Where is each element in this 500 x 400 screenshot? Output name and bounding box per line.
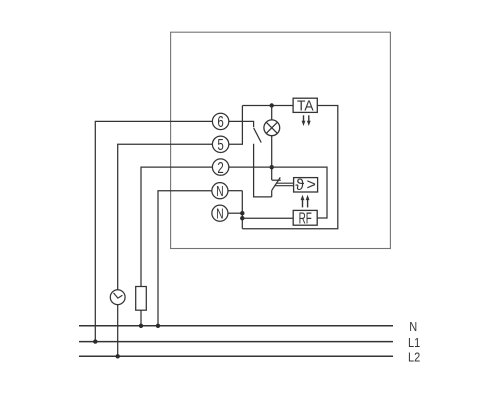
lamp stem bottom to contact [271,136,273,180]
wire terminal 2 left, upper segment [141,167,212,286]
wire terminal 5 left, upper segment [118,144,213,289]
device outline box [171,32,391,248]
switch arm pivot stem [271,190,273,197]
terminal 2 [212,158,228,176]
wire terminal N2 right [228,212,242,214]
actuator load resistor [136,287,147,311]
thermostat box ϑ> [294,176,318,194]
junction RF branch [240,216,244,220]
wire terminal 6 left to L1 [95,121,212,341]
bus N [79,325,393,327]
fixed contact tick [272,179,281,181]
label L2 [408,351,420,365]
wire to RF left [242,217,293,219]
wire terminal 6 right with switch stub [229,121,254,127]
svg-text:5: 5 [217,135,224,153]
terminal 5 [212,135,228,153]
RF up arrow 1 [301,195,305,208]
wire terminal 5 right up to top rail [229,106,243,145]
terminal N2 [212,205,228,222]
svg-text:ϑ: ϑ [295,177,304,194]
bus L2 [79,355,393,357]
svg-text:RF: RF [299,209,312,227]
wire terminal 2 right to RF riser [229,167,327,218]
wire clock to L2 [117,305,119,357]
TA down arrow 2 [307,115,311,126]
switch bottom wire to terminal-6 contact rail [254,144,272,197]
switch arm lower with actuator arrow [272,177,281,190]
RF box [293,209,317,227]
junction N2 [240,211,244,215]
svg-text:>: > [307,176,316,193]
N vertical rail [241,191,243,229]
svg-text:6: 6 [217,112,224,130]
junction on N bus [156,324,160,328]
junction on N bus [139,324,143,328]
junction on L1 [93,339,97,343]
wire TA right to N rail [242,106,337,229]
svg-text:2: 2 [217,158,224,176]
svg-text:N: N [216,183,224,199]
terminal N1 [212,183,228,200]
svg-text:N: N [409,320,417,334]
switch arm upper [254,128,262,143]
bus L1 [79,341,393,343]
label L1 [408,336,420,350]
junction lamp and terminal 2 wire [270,165,274,169]
lamp stem top [271,106,273,120]
TA down arrow 1 [302,115,306,126]
RF up arrow 2 [306,195,310,208]
wire terminal N1 left to N bus [158,191,212,326]
junction on L2 [116,354,120,358]
junction lamp branch [270,103,274,107]
svg-text:TA: TA [297,97,314,113]
svg-text:L1: L1 [408,336,420,350]
mechanical linkage double line [275,183,294,185]
top rail to TA [242,105,293,107]
terminal 6 [212,112,228,130]
svg-text:N: N [216,206,224,222]
TA box [293,97,317,113]
wire resistor to N bus [140,310,142,326]
lamp L1 indicator [264,120,280,136]
svg-text:L2: L2 [408,351,420,365]
label N [409,320,417,334]
time switch clock symbol [110,290,125,305]
wire terminal N1 right [228,190,242,192]
